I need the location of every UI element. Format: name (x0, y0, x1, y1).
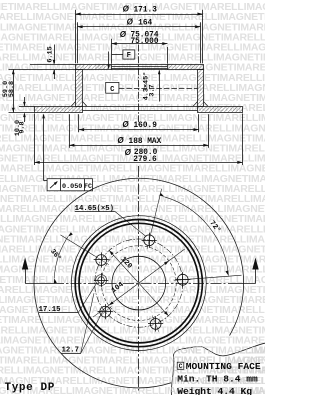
hat edge thick circle (75, 220, 202, 347)
dimension 10.0/9.8 (19, 106, 35, 108)
set screw hole (98, 277, 105, 284)
svg-text:Ø: Ø (127, 18, 134, 27)
info box (break-line border) (171, 343, 265, 395)
hat left wall section (hatched) (76, 70, 83, 107)
svg-text:160.9: 160.9 (133, 122, 157, 130)
dimension 36 degrees (60, 235, 94, 256)
svg-text:58.8: 58.8 (8, 81, 16, 97)
svg-text:Ø: Ø (123, 5, 130, 14)
front view outer circle (34, 178, 244, 388)
svg-text:MOUNTING FACE: MOUNTING FACE (186, 361, 261, 372)
hat flange right section (hatched) (168, 65, 204, 70)
braking band outer thin circle (71, 216, 206, 351)
section centerline (138, 45, 140, 125)
svg-text:F: F (127, 52, 131, 60)
svg-text:75.000: 75.000 (130, 38, 158, 46)
datum C box (106, 82, 119, 93)
friction band right section (hatched) (198, 107, 243, 113)
dimension 72 degrees (151, 189, 162, 233)
cavity far-side band edge lines (83, 106, 198, 108)
svg-text:C: C (179, 363, 183, 370)
dimension 59.0/58.8 (9, 69, 76, 71)
svg-text:9.8: 9.8 (19, 121, 27, 133)
svg-text:171.3: 171.3 (133, 7, 157, 15)
dimension 120 bolt circle (109, 250, 168, 315)
hat right wall section (hatched) (198, 70, 204, 107)
bolt circle (dash-dot) (95, 239, 183, 327)
svg-text:188 MAX: 188 MAX (129, 138, 162, 146)
friction band left section (hatched) (35, 107, 83, 113)
bolt hole at 211.6 deg (96, 255, 107, 266)
feature control frame 0.050/FC (47, 179, 92, 191)
datum F box (123, 50, 135, 59)
datum C reference in note (177, 362, 184, 369)
front view horizontal centerline (53, 283, 226, 285)
svg-text:Ø: Ø (117, 136, 124, 145)
dimension 104 screw circle (93, 249, 185, 317)
FCF leader to friction surface (44, 180, 48, 182)
chamfer leader right (159, 71, 161, 102)
bolt hole at 67.6 deg (150, 318, 161, 329)
front view vertical centerline (138, 166, 140, 391)
svg-text:Weight 4.4 Kg: Weight 4.4 Kg (177, 386, 252, 395)
bolt hole at -76.4 deg (144, 235, 155, 246)
svg-text:3.7: 3.7 (149, 84, 157, 96)
wall-band fillets (71, 102, 75, 107)
dimension 6.15 (30, 64, 76, 66)
band inner thick circle (79, 223, 199, 343)
svg-text:Ø: Ø (122, 120, 129, 129)
center bore circle (112, 256, 166, 310)
bolt hole at 139.6 deg (100, 306, 111, 317)
bore far-side edge lines (112, 66, 168, 68)
svg-text:FC: FC (84, 183, 92, 190)
svg-text:Min. TH 8.4 mm: Min. TH 8.4 mm (177, 373, 258, 384)
chamfer leader left (108, 52, 110, 69)
hat flange left section (hatched) (76, 65, 112, 70)
svg-text:6.15: 6.15 (47, 46, 55, 62)
svg-text:C: C (110, 86, 115, 94)
svg-text:Type DP: Type DP (5, 382, 55, 394)
bolt hole at -4.4 deg (177, 274, 188, 285)
section arrow left (25, 268, 27, 284)
svg-text:Ø: Ø (120, 30, 127, 39)
svg-text:Ø: Ø (125, 148, 132, 157)
Ø104 screw circle (dashed) (101, 246, 176, 321)
svg-text:0.050: 0.050 (62, 183, 82, 191)
hat drum inner edge line (119, 88, 198, 90)
section arrow right (255, 268, 257, 284)
